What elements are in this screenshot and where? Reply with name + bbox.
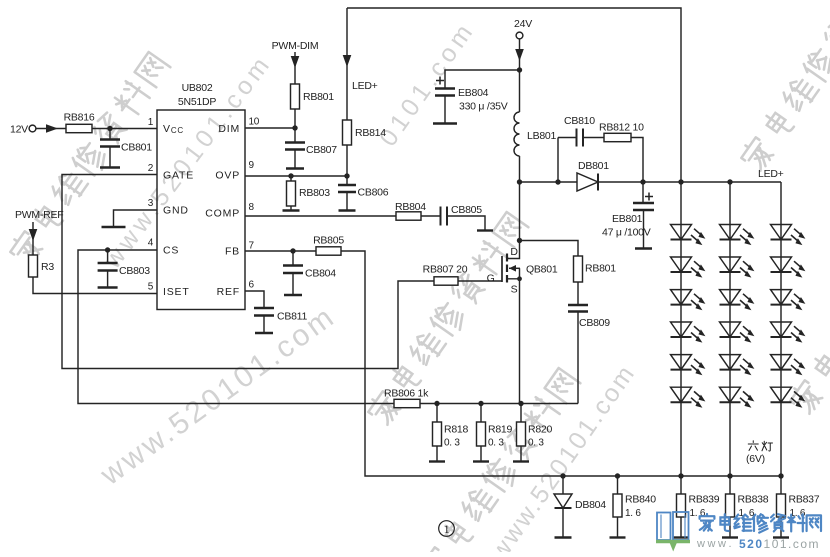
wire to RB839 [680,476,682,494]
label figure number 1 [439,521,455,537]
ground RB803 [283,209,300,211]
svg-text:2: 2 [148,163,154,174]
watermark [7,51,172,268]
svg-text:LED+: LED+ [352,80,378,92]
ground IC GND [102,226,126,228]
wire CB809 to CS rail [577,312,579,404]
capacitor CB801 [100,129,152,168]
logo url www.520101.com [696,537,820,551]
junction R820 top [518,401,523,406]
ground EB804 [433,122,457,124]
wire LB801 to DB801 anode [520,181,578,183]
resistor RB840 [613,494,656,520]
resistor RB838 [726,494,769,520]
svg-text:CB809: CB809 [579,317,610,329]
resistor RB839 [677,494,720,520]
svg-text:24V: 24V [514,18,532,30]
wire to R819 [480,404,482,423]
svg-text:5N51DP: 5N51DP [178,96,216,108]
svg-text:COMP: COMP [205,208,240,220]
svg-text:LB801: LB801 [527,130,557,142]
svg-text:FB: FB [225,246,240,258]
svg-text:S: S [511,284,518,296]
svg-text:EB801: EB801 [612,213,643,225]
LED D3-1 [771,225,806,246]
svg-text:ISET: ISET [163,286,190,298]
resistor RB812 [583,122,644,142]
svg-text:R819: R819 [488,424,513,436]
svg-text:CB803: CB803 [119,265,150,277]
junction LED col1 cathode [678,473,683,478]
junction LED column 1 top [678,179,683,184]
capacitor CB804 [283,251,336,295]
ground CB806 [339,209,356,211]
svg-text:1. 6: 1. 6 [690,508,706,519]
svg-text:RB801: RB801 [585,263,616,275]
svg-text:0. 3: 0. 3 [488,438,504,449]
svg-text:R820: R820 [528,424,553,436]
svg-text:1: 1 [444,522,450,536]
svg-text:GATE: GATE [163,170,194,182]
op-amp U1: IC UB802 5N51DP [157,82,245,310]
watermark [484,359,641,557]
ground CB805 [477,229,493,231]
svg-text:PWM-DIM: PWM-DIM [272,40,319,52]
wire RB840 to ground [617,517,619,537]
svg-text:47 μ /100V: 47 μ /100V [602,227,651,239]
ground RB838 [722,536,738,538]
junction source-body tie [517,276,522,281]
svg-text:UB802: UB802 [182,82,213,94]
wire RB814 to OVP [346,145,348,176]
LED D3-4 [771,322,806,343]
wire GATE net [62,175,434,369]
watermark [374,16,481,151]
LED D2-5 [720,355,755,376]
svg-text:RB801: RB801 [303,91,334,103]
svg-text:8: 8 [249,202,255,213]
svg-text:CB805: CB805 [451,204,482,216]
svg-text:7: 7 [249,241,255,252]
watermark [738,0,830,174]
svg-text:(6V): (6V) [746,453,765,465]
wire to RB838 [729,476,731,494]
capacitor CB803 [98,250,151,287]
LED D1-5 [671,355,706,376]
ground R820 [513,460,529,462]
wire RB812 to cathode [631,138,643,183]
resistor RB805 [313,235,344,256]
resistor RB804 [395,201,426,220]
node 24V input terminal [514,18,532,39]
wire current sense rail [420,403,578,405]
ground CB807 [286,167,304,169]
wire REF pin6 [245,291,264,308]
junction CS node [105,247,110,252]
svg-text:RB803: RB803 [299,187,330,199]
wire LED column 3 [780,182,782,476]
wire RB837 to ground [780,517,782,537]
watermark [365,211,530,428]
junction OVP-RB803 [288,173,293,178]
resistor R820 [517,422,553,449]
wire CS net [78,250,394,404]
ground RB840 [610,536,626,538]
svg-text:4: 4 [148,238,154,249]
watermark [787,200,830,417]
junction LED column 2 top [727,179,732,184]
wire top rail to LED+ bus [347,8,681,182]
wire CB805 to ground [447,216,485,231]
wire Vcc pin1 [92,128,157,130]
junction LED col3 cathode [778,473,783,478]
LED D1-2 [671,257,706,278]
svg-text:R818: R818 [444,424,469,436]
LED D2-1 [720,225,755,246]
wire RB838 to ground [729,517,731,537]
svg-text:CB811: CB811 [277,311,307,323]
diode DB804 [554,476,606,537]
svg-text:5: 5 [148,282,154,293]
diode DB801 [577,160,609,191]
junction snubber left [555,179,560,184]
svg-text:QB801: QB801 [526,264,558,276]
ground R819 [473,460,489,462]
ground RB837 [773,536,789,538]
wire to RB837 [780,476,782,494]
svg-text:520101.com: 520101.com [739,537,820,551]
svg-text:RB806 1k: RB806 1k [384,388,429,400]
wire R3 to ISET pin5 [33,277,157,294]
ground EB801 [635,247,652,249]
junction FB node [290,248,295,253]
junction R819 top [478,401,483,406]
wire R820 to ground [520,446,522,462]
ground CB811 [255,332,273,334]
resistor RB837 [777,494,820,520]
resistor RB801 (dim) [291,84,335,109]
svg-text:1. 6: 1. 6 [625,508,641,519]
capacitor CB810 [558,115,595,182]
LED D3-3 [771,290,806,311]
watermark [417,367,582,557]
svg-text:3: 3 [148,198,154,209]
wire source to CS rail [519,279,521,404]
svg-text:G: G [487,273,495,285]
junction R818 top [434,401,439,406]
wire drain to RB801 [520,241,579,257]
svg-text:CB804: CB804 [305,268,336,280]
wire drain [519,182,521,241]
capacitor EB801 electrolytic [602,182,654,248]
wire 12V to RB816 with arrow [36,124,66,133]
svg-text:w w w .: w w w . [696,538,732,550]
wire GND pin3 [114,210,158,227]
capacitor CB811 [254,308,307,333]
svg-text:R3: R3 [41,261,54,273]
svg-text:DB801: DB801 [578,160,609,172]
svg-text:CS: CS [163,245,179,257]
svg-text:RB807 20: RB807 20 [423,264,468,276]
capacitor CB805 [441,204,483,226]
label 六灯 (6V) [746,441,773,465]
junction 24V node [517,67,522,72]
svg-text:GND: GND [163,205,189,217]
wire 24V to EB804 [445,70,520,88]
svg-text:RB816: RB816 [64,112,95,124]
node PWM-DIM input [272,40,319,52]
capacitor CB806 [338,176,389,211]
wire PWM-DIM arrow [291,52,300,84]
LED D2-3 [720,290,755,311]
LED D2-4 [720,322,755,343]
inductor LB801 [514,70,557,182]
wire RB801 to DIM [294,109,296,128]
wire LED column 2 [729,182,731,476]
svg-text:0. 3: 0. 3 [444,438,460,449]
ground CB804 [284,294,302,296]
LED D1-3 [671,290,706,311]
svg-text:330 μ /35V: 330 μ /35V [459,101,508,113]
resistor RB803 [287,181,331,206]
wire PWM-REF arrow [29,222,38,255]
transistor QB801 N-MOSFET [487,241,558,296]
svg-text:RB840: RB840 [625,494,656,506]
svg-text:RB805: RB805 [313,235,344,247]
node PWM-REF input [15,209,63,221]
svg-text:12V: 12V [10,124,28,136]
svg-text:DB804: DB804 [575,499,606,511]
svg-text:D: D [510,246,518,258]
wire RB805 to cathode sense rail [341,251,781,476]
wire RB803 to ground [290,206,292,211]
resistor RB801 (snubber) [574,256,617,282]
resistor R819 [477,422,513,449]
svg-text:OVP: OVP [215,170,240,182]
wire to RB840 [617,476,619,494]
svg-text:RB839: RB839 [689,494,720,506]
svg-text:0. 3: 0. 3 [528,438,544,449]
wire OVP net [245,175,347,177]
junction OVP-RB814-CB806 [344,173,349,178]
node LED+ (left branch) [343,8,378,120]
svg-text:EB804: EB804 [458,87,489,99]
svg-text:10: 10 [249,117,260,128]
svg-text:RB812 10: RB812 10 [599,122,644,134]
svg-text:RB837: RB837 [789,494,820,506]
wire RB807 to gate [458,280,502,282]
svg-text:CB801: CB801 [121,142,152,154]
capacitor EB804 electrolytic [435,77,508,124]
wire FB pin7 [245,250,316,252]
ground RB839 [673,536,689,538]
resistor RB816 [64,112,95,133]
junction EB801 node [640,179,645,184]
ground R818 [429,460,445,462]
svg-text:LED+: LED+ [758,168,784,180]
junction LED col2 cathode [727,473,732,478]
junction RB840 top [615,473,620,478]
svg-text:9: 9 [249,160,255,171]
LED D3-6 [771,387,806,408]
junction drain node [517,238,522,243]
wire to R818 [436,404,438,423]
wire RB839 to ground [680,517,682,537]
svg-text:6: 6 [249,280,255,291]
resistor R3 [29,255,55,277]
resistor RB806 [384,388,429,408]
LED D1-1 [671,225,706,246]
svg-text:RB838: RB838 [738,494,769,506]
capacitor CB809 [568,282,610,329]
node 12V input terminal [10,124,36,136]
svg-text:RB804: RB804 [395,201,426,213]
watermark [98,49,278,275]
svg-text:1: 1 [148,117,154,128]
wire OVP to RB803 [290,176,292,181]
ground CB801 [100,166,120,168]
resistor RB814 [343,120,387,145]
wire LED column 1 [680,182,682,476]
label LED+ [758,168,784,180]
ground DB804 [555,536,572,538]
LED D1-4 [671,322,706,343]
LED D3-5 [771,355,806,376]
logo book icon [656,512,690,552]
wire 24V arrow [515,39,524,70]
junction boost switch node [517,179,522,184]
svg-text:CB810: CB810 [564,115,595,127]
wire COMP net [245,215,396,217]
wire R818 to ground [436,446,438,462]
watermark [94,299,342,492]
pin numbers [148,117,260,293]
wire DIM pin10 [245,127,295,129]
LED D3-2 [771,257,806,278]
wire to R820 [520,404,522,423]
ground CB803 [98,286,118,288]
logo text 家电维修资料网 [700,514,821,533]
svg-text:CB807: CB807 [306,144,337,156]
svg-text:REF: REF [217,286,240,298]
junction DIM node [292,125,297,130]
wire RB804 to CB805 [421,215,440,217]
wire R819 to ground [480,446,482,462]
resistor RB807 [423,264,468,286]
resistor R818 [433,422,469,449]
LED D2-2 [720,257,755,278]
svg-text:CB806: CB806 [358,187,389,199]
junction DB804 top [560,473,565,478]
capacitor CB807 [285,128,337,168]
svg-text:RB814: RB814 [355,127,386,139]
wire output LED+ rail [598,181,781,183]
svg-text:DIM: DIM [218,123,240,135]
LED D1-6 [671,387,706,408]
LED D2-6 [720,387,755,408]
junction Vcc node [107,126,112,131]
svg-text:PWM-REF: PWM-REF [15,209,63,221]
